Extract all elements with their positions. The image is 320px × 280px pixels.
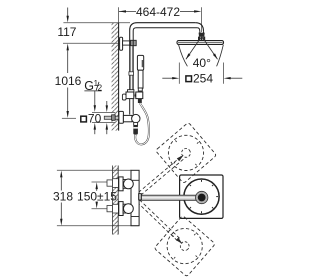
svg-text:254: 254	[193, 72, 213, 86]
hand shower bottom tip	[138, 88, 142, 91]
dim 70 up arrows (below)	[94, 123, 96, 130]
dim 70 second down arrow	[106, 101, 108, 106]
head circle tick marks	[185, 180, 218, 213]
dim 1016: bottom tick line	[62, 117, 76, 119]
lower connection union	[123, 204, 127, 213]
svg-text:70: 70	[88, 111, 102, 125]
svg-text:1016: 1016	[55, 74, 82, 88]
wall hatching (upper drawing)	[112, 23, 119, 131]
dim 150+-15 upper extension line	[92, 181, 114, 183]
right elbow outer	[195, 23, 203, 32]
head square (solid, top view)	[180, 175, 223, 218]
ball joint lower block	[198, 37, 205, 41]
head connector stub	[199, 31, 201, 33]
hose cone fitting (dark)	[133, 125, 138, 134]
svg-text:40°: 40°	[193, 56, 211, 70]
valve body block	[123, 115, 132, 121]
dim 70 upper line	[92, 111, 115, 113]
upper connection union	[123, 180, 127, 189]
extension line left (wall face, top)	[118, 7, 120, 22]
G 1/2 leader arrow down	[94, 91, 96, 106]
square symbol for 70	[81, 116, 87, 122]
slider waist	[133, 93, 136, 97]
dim 1016: top arrow pointing up	[67, 44, 69, 51]
head tilt arc left	[179, 45, 188, 66]
lower handle circle	[123, 204, 133, 214]
slider lock knob	[122, 94, 126, 100]
swivel ghost arm lower arrowhead	[176, 238, 183, 245]
upper connection stub behind wall	[107, 180, 113, 186]
slider right holder block	[136, 92, 143, 99]
dimension 464-472 right arrow	[194, 10, 201, 12]
riser inner detail lines	[130, 46, 132, 90]
dimension 464-472 line left segment	[119, 10, 136, 12]
valve escutcheon at wall	[119, 111, 124, 123]
upper connection white gap in wall	[111, 179, 119, 188]
arm inner line (pipe bottom edge)	[133, 28, 197, 46]
square symbol for 254	[186, 76, 192, 82]
upper connection escutcheon	[119, 177, 123, 191]
dim 1016: lower segment + down arrow	[67, 88, 69, 112]
swivel ghost arm upper (dashed)	[139, 155, 185, 195]
dim square254 extension lines	[178, 63, 180, 84]
hand shower grip	[138, 70, 143, 88]
svg-text:150±15: 150±15	[77, 189, 117, 203]
G 1/2 underline	[84, 90, 101, 92]
lower connection stub behind wall	[107, 206, 113, 212]
vertical riser pipe (left edge)	[129, 45, 131, 115]
head center dot (dark)	[198, 194, 206, 202]
shower head disc	[177, 41, 224, 45]
valve outlet stub	[134, 122, 138, 125]
riser upper part to elbow	[130, 23, 196, 46]
swivel ghost arm upper arrowhead	[177, 155, 184, 161]
dimension 464-472 line right segment	[180, 10, 195, 12]
dim 117: extension line at upper wall union center	[63, 42, 119, 44]
head center nut ring (gray)	[196, 191, 208, 203]
svg-text:117: 117	[57, 25, 76, 39]
svg-text:464-472: 464-472	[136, 5, 180, 19]
upper handle circle	[123, 179, 133, 189]
lower wall hatching strip	[113, 166, 119, 235]
hand shower head	[137, 55, 143, 70]
vertical riser pipe (right edge)	[132, 46, 134, 115]
ball joint nut (dark)	[199, 33, 205, 37]
dim 318 bottom extension line	[57, 225, 139, 227]
swivel ghost arm lower (dashed)	[137, 200, 181, 242]
body top cap line	[131, 179, 139, 181]
arm base nut	[139, 194, 142, 200]
wall face line (upper drawing)	[118, 23, 120, 131]
thermostat supply pipe into wall (gray)	[104, 116, 118, 119]
riser joint sleeve	[129, 72, 134, 75]
dim square254: right arrow+tail	[224, 77, 231, 79]
dim 150+-15 vertical line with arrows	[96, 182, 98, 189]
dim square254: left tail+arrow	[162, 77, 172, 79]
upper connection small step	[127, 181, 130, 187]
bracket pipe	[123, 41, 131, 45]
tilt 40 degree right leg with arrow	[202, 37, 217, 59]
extension line right (shower head axis)	[201, 7, 203, 32]
svg-text:318: 318	[53, 189, 73, 203]
body bottom cap line	[131, 216, 139, 218]
lower connection escutcheon	[119, 202, 123, 216]
slider left block	[126, 92, 134, 99]
mixer body column	[131, 170, 139, 225]
swivel ghost head upper (dashed square+circle)	[155, 122, 216, 183]
lower connection white gap in wall	[111, 204, 119, 213]
tilt 40 degree left leg with arrow	[186, 37, 201, 59]
dim 117: upper arrow (outside, pointing down)	[67, 8, 69, 17]
head tilt arc right	[217, 45, 224, 66]
dim 318 vertical line with arrows	[60, 171, 62, 178]
hand shower hose (J loop)	[135, 103, 149, 144]
lower connection small step	[127, 206, 130, 212]
dim 318 top extension line	[57, 169, 131, 171]
dim 70 lower line	[92, 122, 115, 124]
dimension 464-472 left arrow	[119, 10, 126, 12]
shower arm (top view, gray)	[139, 195, 201, 200]
valve round body	[132, 114, 140, 122]
dim 117: extension line at arm top	[63, 22, 130, 24]
bracket union nut (gray)	[131, 40, 137, 45]
wall bracket flange	[120, 37, 123, 50]
supply pipe nut (dark gray)	[112, 115, 116, 121]
swivel ghost head lower (dashed square+circle)	[154, 215, 215, 276]
head circle (solid)	[184, 179, 219, 214]
rail foot block	[128, 90, 134, 93]
hose fitting below holder (dark)	[138, 99, 142, 103]
right elbow inner	[197, 28, 199, 32]
dim 150+-15 lower extension line	[92, 208, 114, 210]
